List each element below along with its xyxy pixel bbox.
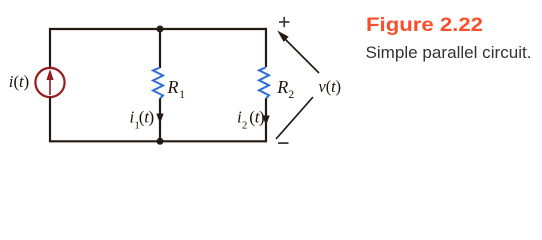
wire bottom [49, 140, 267, 142]
wire R2 branch lower [265, 98, 267, 142]
label R1 [167, 77, 186, 101]
current source I1 [35, 68, 64, 97]
node dot top [157, 26, 164, 33]
wire R1 branch lower [159, 99, 161, 142]
minus sign [278, 142, 289, 144]
wire left upper [49, 28, 51, 68]
current arrow i1 [156, 114, 163, 124]
wire left lower [49, 98, 51, 143]
resistor R2 [259, 67, 269, 98]
voltage line lower [276, 97, 313, 139]
svg-text:R: R [167, 77, 179, 97]
resistor R1 [153, 68, 163, 99]
node dot bottom [157, 138, 164, 145]
svg-text:2: 2 [288, 89, 294, 101]
label i1(t) [130, 107, 155, 131]
wire top [49, 28, 267, 30]
wire R1 branch upper [159, 29, 161, 68]
svg-text:2: 2 [242, 119, 248, 131]
svg-text:): ) [259, 107, 265, 126]
label R2 [276, 77, 294, 101]
svg-text:v(t): v(t) [319, 77, 342, 96]
wire R2 branch upper [265, 28, 267, 67]
voltage arrow upper [277, 31, 319, 74]
current arrow i2 [262, 116, 269, 126]
svg-text:Figure 2.22: Figure 2.22 [366, 15, 483, 36]
svg-text:R: R [276, 77, 288, 97]
svg-text:Simple parallel circuit.: Simple parallel circuit. [366, 43, 532, 62]
svg-text:): ) [149, 107, 155, 126]
svg-text:1: 1 [179, 89, 185, 101]
plus sign [279, 17, 289, 27]
svg-text:i(t): i(t) [9, 72, 29, 91]
label i2(t) [237, 107, 265, 131]
